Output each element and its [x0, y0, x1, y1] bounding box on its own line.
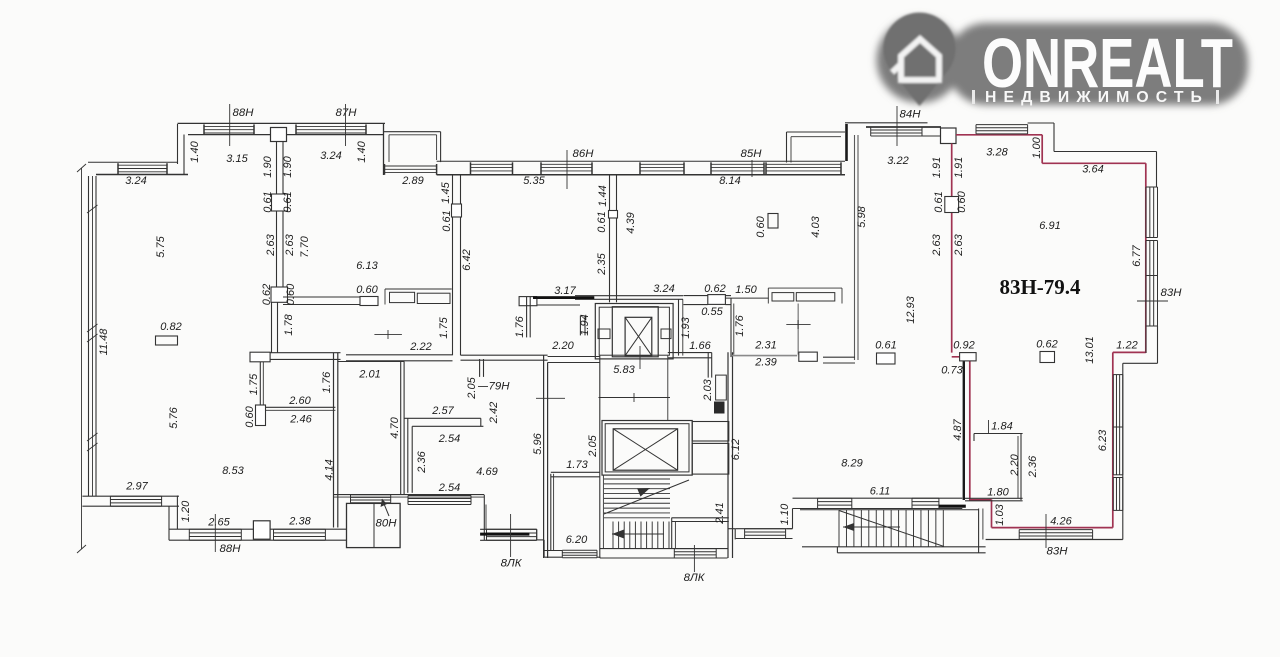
svg-text:2.36: 2.36 — [416, 450, 428, 473]
wall under 1.50 — [725, 297, 768, 299]
window 8LK window left — [487, 529, 537, 540]
84N window thick top — [866, 126, 941, 128]
svg-text:83Н-79.4: 83Н-79.4 — [999, 275, 1081, 299]
window right window 6.23c — [1113, 478, 1123, 511]
elevator-1 X — [625, 317, 652, 355]
red unit right edge upper — [1145, 163, 1147, 353]
dimension line left — [77, 164, 86, 553]
svg-text:1.50: 1.50 — [735, 284, 757, 296]
door door on wall 609 — [609, 211, 618, 219]
svg-text:2.57: 2.57 — [431, 405, 454, 417]
svg-text:1.10: 1.10 — [779, 503, 791, 525]
window right window 6.23a — [1113, 375, 1123, 427]
svg-text:1.20: 1.20 — [180, 500, 192, 522]
window window under balcony-1 — [385, 164, 437, 175]
red unit top edge — [956, 134, 1042, 136]
svg-text:5.83: 5.83 — [613, 364, 635, 376]
svg-text:6.13: 6.13 — [356, 260, 378, 272]
leader 88N top — [229, 104, 231, 146]
svg-text:0.60: 0.60 — [244, 405, 256, 427]
wall 2.01 right — [401, 362, 404, 495]
80N arrow — [381, 499, 390, 516]
corridor left wall elevator-2 — [600, 356, 668, 421]
wall step right mid — [1123, 363, 1158, 539]
label 0.82 rect — [156, 336, 178, 345]
svg-text:1.73: 1.73 — [566, 459, 588, 471]
stair-R right wall — [979, 509, 983, 553]
svg-text:1.22: 1.22 — [1116, 339, 1137, 351]
svg-text:2.38: 2.38 — [288, 515, 311, 527]
wall above elevator-1 — [575, 296, 683, 300]
window right window 6.77b — [1146, 241, 1158, 276]
svg-text:0.62: 0.62 — [261, 284, 273, 305]
window window right of 80N — [408, 496, 471, 505]
svg-text:2.54: 2.54 — [438, 433, 460, 445]
hydrant box bottom — [253, 521, 270, 539]
svg-text:80Н: 80Н — [376, 518, 398, 530]
door 0.92 on red wall — [960, 353, 977, 361]
svg-text:3.24: 3.24 — [320, 150, 341, 162]
red unit right edge lower — [1112, 352, 1114, 527]
wall 2.60 bottom — [266, 407, 336, 410]
window 8LK window center — [674, 549, 716, 558]
svg-text:1.91: 1.91 — [931, 157, 943, 178]
wall 2.01 top — [338, 361, 404, 363]
wall to 6.20 window — [544, 551, 562, 558]
wall top mid — [437, 161, 845, 174]
elevator-2 X — [613, 429, 677, 470]
window 84N window — [871, 127, 922, 136]
post between 88N 87N — [271, 128, 287, 142]
wall right of elevator-1 — [679, 299, 683, 355]
door door 0.61 mid 8.29 — [877, 353, 896, 364]
logo bracket right — [1216, 90, 1219, 104]
svg-text:2.03: 2.03 — [702, 378, 714, 401]
wall 3.17 thick — [533, 296, 594, 299]
svg-text:6.11: 6.11 — [870, 485, 891, 497]
kitchen top wall — [283, 297, 360, 305]
leader 85N — [751, 160, 753, 177]
door door 2.31 bottom — [799, 352, 818, 361]
wall thick v1 right of balcony-2 — [845, 124, 848, 161]
wall wall 8LK-left seg — [480, 529, 537, 540]
svg-text:1.80: 1.80 — [987, 486, 1009, 498]
wall 2.41 vertical — [728, 352, 733, 558]
svg-text:0.62: 0.62 — [704, 283, 725, 295]
svg-text:84Н: 84Н — [900, 109, 922, 121]
svg-text:0.61: 0.61 — [441, 210, 453, 231]
leader 84N — [896, 106, 898, 146]
svg-text:2.01: 2.01 — [358, 368, 380, 380]
wall 1.75 left — [260, 362, 263, 405]
svg-text:2.63: 2.63 — [284, 233, 296, 256]
leader 8LK right — [693, 545, 695, 572]
elevator-1 cab box — [612, 307, 658, 357]
svg-text:4.87: 4.87 — [952, 418, 964, 440]
svg-text:4.14: 4.14 — [323, 459, 335, 480]
window right window 6.77a — [1146, 187, 1158, 238]
duct L-channel — [404, 418, 483, 493]
leader 5.83 vertical — [639, 346, 641, 369]
wall right plain below windows — [1146, 326, 1158, 363]
svg-text:8ЛК: 8ЛК — [501, 558, 523, 570]
window window 2.65 — [189, 529, 241, 540]
wall seg 823-855 — [823, 357, 855, 363]
svg-text:0.60: 0.60 — [755, 215, 767, 237]
wall balcony-1 outer — [384, 124, 441, 175]
window 85N window a — [711, 162, 764, 174]
svg-text:1.76: 1.76 — [734, 314, 746, 336]
duct box 2.03 a — [716, 375, 727, 400]
elevator-1 outer box — [595, 304, 673, 359]
svg-text:2.46: 2.46 — [289, 413, 312, 425]
door door 0.60 west — [250, 352, 270, 362]
box right of elevator-2 b — [692, 443, 729, 474]
svg-text:1.76: 1.76 — [514, 315, 526, 337]
wall thick seg near 1.03 — [939, 505, 966, 508]
wall upper top — [178, 123, 386, 134]
red unit edge 3.64 — [1042, 162, 1146, 164]
svg-text:1.90: 1.90 — [282, 155, 294, 177]
wall h right of elevator-1 — [668, 353, 712, 358]
window 6.11 window a — [818, 498, 852, 508]
svg-text:1.40: 1.40 — [189, 140, 201, 162]
svg-text:5.76: 5.76 — [168, 406, 180, 428]
stair-R interior top line — [800, 509, 979, 511]
window window 6.20 — [562, 550, 597, 557]
svg-text:8.53: 8.53 — [222, 465, 244, 477]
kitchen counter box b — [417, 293, 450, 303]
wall balcony-2 — [787, 132, 846, 163]
door kitchen door 0.60 — [360, 297, 378, 306]
svg-text:2.89: 2.89 — [401, 175, 423, 187]
svg-text:2.36: 2.36 — [1027, 455, 1039, 478]
door swing dash 2.31 — [786, 320, 810, 329]
stair-R arrow — [843, 523, 900, 531]
door door 0.62 top — [708, 295, 726, 305]
wall top-left y163 — [88, 162, 188, 174]
counter 2.31 box b — [796, 293, 835, 301]
elevator-2 outer box — [602, 421, 692, 476]
stair-R diagonal — [839, 511, 944, 547]
svg-text:3.64: 3.64 — [1082, 163, 1103, 175]
svg-text:1.00: 1.00 — [1031, 136, 1043, 158]
window window top red unit — [976, 125, 1028, 134]
wall 5.96 — [544, 355, 548, 558]
svg-text:2.97: 2.97 — [125, 480, 148, 492]
svg-text:2.31: 2.31 — [754, 339, 776, 351]
wall jog left of 8LK-r window — [728, 529, 736, 540]
svg-text:5.75: 5.75 — [155, 235, 167, 257]
stair-R bottom wall — [802, 547, 986, 553]
stair-R treads — [839, 510, 943, 547]
svg-text:1.78: 1.78 — [283, 313, 295, 335]
svg-text:1.66: 1.66 — [689, 340, 711, 352]
svg-text:12.93: 12.93 — [905, 295, 917, 323]
svg-text:0.61: 0.61 — [262, 191, 274, 212]
svg-text:85Н: 85Н — [741, 148, 763, 160]
window 6.11 window b — [912, 498, 939, 508]
wall black top right corner — [1028, 123, 1157, 187]
leader 83N bottom — [1045, 514, 1047, 548]
svg-text:83Н: 83Н — [1161, 287, 1183, 299]
svg-text:2.60: 2.60 — [288, 395, 311, 407]
svg-text:5.35: 5.35 — [523, 175, 545, 187]
wall bottom wall west — [82, 496, 179, 506]
window 5.35 window — [471, 162, 513, 174]
leader 86N — [566, 150, 568, 189]
svg-text:87Н: 87Н — [336, 107, 358, 119]
svg-text:0.61: 0.61 — [596, 211, 608, 232]
wall partition 8.14-left (609-617) — [610, 175, 617, 211]
wall 1.73 bottom — [551, 472, 600, 477]
main v-wall 4.14 — [334, 353, 338, 528]
step x484 — [484, 495, 486, 540]
door door 3.17 left — [519, 297, 537, 306]
red unit step left — [1113, 351, 1146, 353]
wall top over 84N — [845, 122, 928, 124]
door door on wall 276 — [272, 194, 288, 211]
svg-text:3.24: 3.24 — [653, 283, 674, 295]
window 85N window b — [766, 162, 841, 174]
svg-text:3.22: 3.22 — [887, 155, 908, 167]
stair-C left wall — [600, 421, 604, 559]
window window 80N — [351, 495, 391, 503]
stair-C upper diagonal — [604, 480, 689, 514]
door red wall door upper — [945, 197, 959, 213]
wall wall under stair-R window — [736, 529, 793, 539]
svg-text:2.65: 2.65 — [207, 516, 230, 528]
logo bracket left — [972, 90, 975, 104]
svg-text:1.91: 1.91 — [953, 157, 965, 178]
svg-text:6.12: 6.12 — [730, 439, 742, 460]
wall 3.17 thin — [537, 297, 580, 305]
svg-text:2.05: 2.05 — [587, 434, 599, 457]
stub wall 79N — [480, 359, 484, 377]
svg-text:2.39: 2.39 — [754, 356, 776, 368]
elevator-1 shaft X box — [625, 317, 652, 355]
wall 2.31 bottom gray — [732, 355, 797, 357]
svg-text:8ЛК: 8ЛК — [684, 572, 706, 584]
svg-text:0.61: 0.61 — [875, 339, 896, 351]
wall step top-left — [178, 124, 185, 174]
partition 609 lower — [610, 218, 617, 302]
svg-text:2.54: 2.54 — [438, 482, 460, 494]
elevator-1 outer box inner line — [599, 307, 669, 355]
partition 1.78 lower — [272, 302, 278, 352]
label 0.60 rect v — [768, 214, 778, 229]
wall bold pair black — [963, 361, 965, 500]
svg-text:4.69: 4.69 — [476, 466, 497, 478]
wall stair-R top wall — [793, 498, 963, 508]
wall left outer triple — [89, 176, 97, 497]
window right window 6.23b — [1113, 427, 1123, 475]
svg-text:1.44: 1.44 — [597, 185, 609, 206]
red unit west edge upper — [951, 144, 953, 353]
window window 640 — [640, 162, 684, 174]
main h-wall 461-547 — [461, 355, 548, 360]
stair-C lower flight treads — [613, 522, 669, 549]
wall room1.84 top — [974, 434, 1023, 442]
window 87N window — [296, 124, 366, 134]
red unit west door link — [952, 356, 970, 358]
svg-text:8.29: 8.29 — [841, 457, 862, 469]
leader 79N — [478, 386, 488, 388]
svg-text:4.70: 4.70 — [389, 416, 401, 438]
svg-text:83Н: 83Н — [1047, 546, 1069, 558]
main h-wall 346-452 — [346, 355, 453, 361]
svg-text:6.20: 6.20 — [566, 534, 588, 546]
svg-text:2.05: 2.05 — [466, 376, 478, 399]
svg-text:1.03: 1.03 — [994, 503, 1006, 525]
svg-text:0.61: 0.61 — [282, 191, 294, 212]
door swing dash 6.13 — [374, 330, 402, 339]
leader 83N right — [1137, 300, 1168, 302]
logo pin icon — [884, 13, 956, 106]
svg-text:79Н: 79Н — [489, 381, 511, 393]
svg-text:2.41: 2.41 — [714, 502, 726, 524]
leader 87N top — [345, 104, 347, 146]
svg-text:88Н: 88Н — [233, 107, 255, 119]
svg-text:0.82: 0.82 — [160, 321, 181, 333]
svg-text:2.20: 2.20 — [1009, 453, 1021, 476]
stair-C divider — [672, 518, 729, 549]
wall 6.20 to stair — [597, 556, 601, 558]
svg-text:1.76: 1.76 — [321, 371, 333, 393]
svg-text:0.61: 0.61 — [933, 191, 945, 212]
leader 88N bottom — [214, 514, 216, 552]
svg-text:5.98: 5.98 — [856, 205, 868, 227]
stair-C upper arrow — [637, 488, 650, 497]
svg-text:11.48: 11.48 — [98, 328, 110, 356]
wall v 2.03 — [708, 353, 712, 378]
partition 452 lower — [453, 217, 461, 355]
wall balcony-1 inner — [389, 135, 437, 162]
wall room1.84 right — [1018, 434, 1021, 501]
window 86N window — [541, 162, 592, 174]
svg-text:3.17: 3.17 — [554, 285, 576, 297]
svg-text:0.60: 0.60 — [285, 283, 297, 305]
wall 2.31 right gray — [797, 304, 799, 355]
svg-text:86Н: 86Н — [573, 148, 595, 160]
wall partition 1.90 (276-283) — [277, 141, 284, 194]
left wall hatch ticks — [87, 205, 98, 451]
svg-text:1.75: 1.75 — [438, 316, 450, 338]
wall 0.55 segment — [683, 296, 707, 305]
leader 8LK left — [510, 514, 512, 557]
wall 6.20 left — [551, 474, 554, 551]
window window 2.38 — [274, 529, 326, 540]
svg-text:2.22: 2.22 — [409, 341, 431, 353]
svg-text:5.96: 5.96 — [532, 432, 544, 454]
elevator-1 left niche — [598, 329, 610, 339]
stair-C lower arrow — [612, 530, 664, 539]
svg-text:1.45: 1.45 — [440, 181, 452, 203]
box right of elevator-2 a — [692, 422, 729, 442]
svg-text:1.94: 1.94 — [579, 314, 591, 335]
red unit bottom edge — [992, 527, 1113, 529]
svg-text:3.15: 3.15 — [226, 153, 248, 165]
red unit west edge lower — [969, 361, 971, 501]
window 8LK window right — [745, 529, 786, 539]
elevator-2 inner box — [613, 429, 677, 470]
svg-text:2.35: 2.35 — [596, 252, 608, 275]
svg-text:1.40: 1.40 — [356, 140, 368, 162]
leader below 5.83 — [599, 393, 671, 402]
svg-text:6.91: 6.91 — [1039, 220, 1060, 232]
counter 2.31 box a — [772, 293, 794, 301]
wall partition 1.76c (526-530) — [527, 297, 531, 337]
svg-text:1.93: 1.93 — [680, 316, 692, 338]
svg-text:0.60: 0.60 — [356, 284, 378, 296]
door door on wall 452 — [452, 204, 462, 217]
svg-text:0.92: 0.92 — [953, 339, 974, 351]
window 88N window — [204, 124, 254, 134]
elevator-2 outer inner line — [605, 424, 689, 472]
svg-text:0.55: 0.55 — [701, 306, 723, 318]
kitchen counter outline — [385, 289, 452, 305]
svg-text:4.26: 4.26 — [1050, 515, 1072, 527]
jog right of 8LK-l window — [537, 529, 544, 557]
window 3.24 top-left — [118, 163, 167, 174]
svg-text:0.62: 0.62 — [1036, 338, 1057, 350]
leader dash left — [536, 397, 565, 399]
svg-text:2.63: 2.63 — [931, 233, 943, 256]
svg-text:7.70: 7.70 — [299, 235, 311, 257]
wall 2.31 left — [731, 298, 734, 357]
storage 80N divider — [373, 503, 375, 547]
svg-text:2.20: 2.20 — [551, 340, 574, 352]
wall bottom right black — [986, 539, 1123, 541]
window window 2.97 — [110, 496, 161, 506]
door door 0.62 red unit — [1040, 352, 1055, 363]
thick seg 8LK left — [480, 533, 529, 536]
wall elevator lobby bottom — [548, 357, 600, 363]
svg-text:3.28: 3.28 — [986, 146, 1008, 158]
svg-text:1.75: 1.75 — [248, 373, 260, 395]
wall room1.84 bottom — [965, 498, 1023, 501]
wall stair-R left — [787, 509, 793, 529]
svg-text:1.84: 1.84 — [991, 420, 1012, 432]
storage 80N box — [347, 503, 401, 547]
svg-text:6.23: 6.23 — [1097, 429, 1109, 451]
svg-text:0.73: 0.73 — [941, 364, 963, 376]
wall 2.01 bottom — [334, 495, 485, 498]
wall stub 725-731 — [725, 296, 731, 305]
svg-text:0.60: 0.60 — [956, 190, 968, 212]
svg-text:2.63: 2.63 — [265, 233, 277, 256]
window window 4.26 — [1019, 530, 1092, 540]
wall 84N-post link — [922, 127, 941, 136]
svg-text:8.14: 8.14 — [719, 175, 740, 187]
svg-text:1.90: 1.90 — [262, 155, 274, 177]
step bottom-left — [169, 496, 177, 541]
elevator-1 right niche — [661, 329, 671, 339]
leader 1.84 tick — [988, 420, 990, 434]
partition 276 mid — [277, 211, 284, 287]
svg-text:2.42: 2.42 — [488, 402, 500, 424]
post right top — [941, 128, 957, 144]
svg-text:НЕДВИЖИМОСТЬ: НЕДВИЖИМОСТЬ — [985, 89, 1209, 106]
wall bottom wall main — [169, 529, 347, 540]
svg-text:4.39: 4.39 — [625, 212, 637, 233]
svg-text:13.01: 13.01 — [1084, 336, 1096, 364]
window right window 83N — [1146, 276, 1158, 327]
main h-wall west seg — [250, 353, 341, 360]
duct box 2.03 b dark — [715, 402, 725, 413]
red unit bottom jog h — [970, 499, 992, 501]
svg-text:3.24: 3.24 — [125, 175, 146, 187]
